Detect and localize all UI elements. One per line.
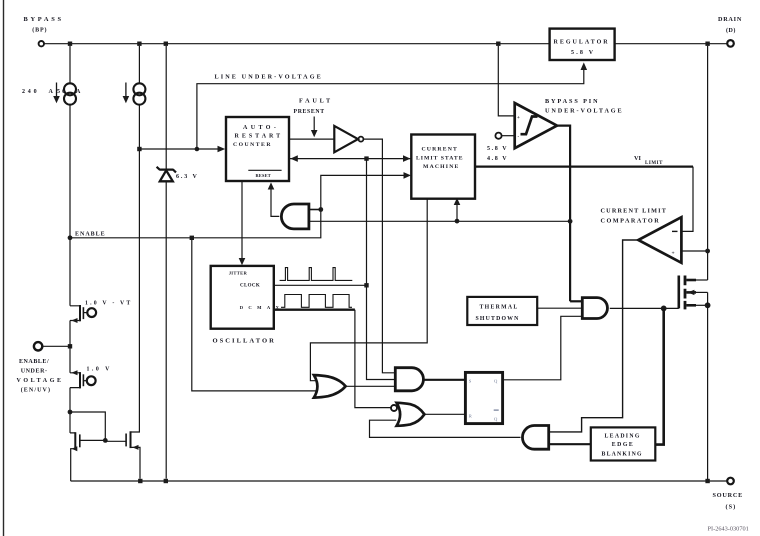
svg-text:A: A xyxy=(49,89,54,95)
latch U9 S-R xyxy=(465,372,502,423)
svg-text:PI-2643-030701: PI-2643-030701 xyxy=(708,526,749,533)
waveform clock pulses xyxy=(280,268,353,281)
waveform dcmax xyxy=(281,295,352,308)
svg-text:DRAIN: DRAIN xyxy=(718,16,742,23)
wire source rail xyxy=(71,479,727,483)
svg-text:(S): (S) xyxy=(726,504,737,511)
pin ENABLE/UNDER-VOLTAGE (EN/UV) xyxy=(17,342,73,393)
svg-text:CURRENT: CURRENT xyxy=(422,147,459,153)
svg-text:+: + xyxy=(672,251,675,257)
svg-text:50: 50 xyxy=(57,89,67,95)
transistor Q5 mirror right xyxy=(105,431,140,479)
svg-text:ENABLE: ENABLE xyxy=(75,232,106,238)
wire G4 output to latch R xyxy=(425,413,466,415)
svg-text:6.3 V: 6.3 V xyxy=(176,174,199,180)
wire comparator-to-gates y221 xyxy=(309,198,570,224)
svg-text:FAULT: FAULT xyxy=(299,98,333,105)
wire VI LIMIT xyxy=(475,155,693,231)
border frame left edge xyxy=(3,0,5,536)
svg-text:S: S xyxy=(469,379,472,384)
wire fault-present net (inverter out to AND1) xyxy=(363,139,395,373)
svg-text:COMPARATOR: COMPARATOR xyxy=(601,217,661,224)
svg-text:THERMAL: THERMAL xyxy=(480,304,519,310)
transistor Q1 power MOSFET xyxy=(679,276,711,482)
wire bypass comp into G6 xyxy=(570,300,582,302)
wire drain vertical xyxy=(707,46,709,280)
svg-text:MACHINE: MACHINE xyxy=(423,164,460,170)
svg-text:COUNTER: COUNTER xyxy=(233,142,272,148)
pin BYPASS (BP) xyxy=(24,16,64,46)
wire dcmax output to OR3 xyxy=(274,310,391,408)
and-gate G3 (clock AND) xyxy=(395,368,423,391)
svg-text:REGULATOR: REGULATOR xyxy=(554,40,610,46)
svg-text:1.0 V: 1.0 V xyxy=(87,367,112,373)
current source I1 240uA/50uA xyxy=(22,83,81,105)
svg-text:RESTART: RESTART xyxy=(235,134,284,140)
svg-text:240: 240 xyxy=(22,89,39,95)
svg-text:4.8 V: 4.8 V xyxy=(487,156,508,162)
svg-text:BYPASS PIN: BYPASS PIN xyxy=(545,98,599,105)
zener VZ 6.3 V xyxy=(157,46,199,479)
wire clock vertical (to oscillator and AND1) xyxy=(364,159,395,380)
wire bypass comparator output down xyxy=(557,126,572,302)
svg-text:CLOCK: CLOCK xyxy=(240,283,260,288)
svg-text:SOURCE: SOURCE xyxy=(713,492,744,499)
svg-text:EDGE: EDGE xyxy=(612,442,634,448)
wire CLSM bottom to OR1 xyxy=(310,199,427,381)
pin DRAIN (D) xyxy=(718,16,742,47)
svg-text:OSCILLATOR: OSCILLATOR xyxy=(213,338,276,345)
and-gate G1 (reset, points left) xyxy=(268,182,321,229)
wire clock net ARC-CLSM double arrow xyxy=(289,155,411,162)
svg-text:UNDER-: UNDER- xyxy=(21,369,48,375)
wire bypass branch x70 upper (rail to T1) xyxy=(69,46,71,306)
leading edge blanking U11 xyxy=(591,427,656,460)
svg-text:CURRENT LIMIT: CURRENT LIMIT xyxy=(601,207,668,214)
svg-text:A: A xyxy=(76,89,81,95)
and-gate G6 (gate drive AND) xyxy=(582,298,607,319)
svg-text:JITTER: JITTER xyxy=(229,271,248,276)
svg-text:(D): (D) xyxy=(726,27,736,34)
transistor Q4 mirror left xyxy=(70,432,105,481)
wire gate node to LEB input xyxy=(655,308,663,444)
wire G6 output to MOSFET gate xyxy=(610,306,679,312)
op-amp U7 current limit comparator xyxy=(601,207,682,262)
svg-text:LIMIT: LIMIT xyxy=(645,161,663,166)
wire thermal shutdown output xyxy=(537,307,582,309)
svg-text:UNDER-VOLTAGE: UNDER-VOLTAGE xyxy=(545,108,624,115)
inverter U5 xyxy=(334,126,363,152)
auto-restart counter U2 xyxy=(226,117,289,181)
wire G3 output to latch S xyxy=(424,379,466,381)
and-gate G5 (points left) xyxy=(522,426,548,450)
wire top rail from BYPASS to DRAIN xyxy=(44,42,727,46)
wire LEB output to G5 xyxy=(549,443,591,445)
wire comparator output to G5 xyxy=(549,240,639,432)
wire EN/UV mirror branch x139 (rail to mirror M2) xyxy=(138,46,140,432)
svg-text:BLANKING: BLANKING xyxy=(602,451,643,457)
svg-text:5.8 V: 5.8 V xyxy=(487,146,508,152)
transistor Q3 sense 1.0 V xyxy=(70,367,112,389)
svg-text:+: + xyxy=(517,116,520,121)
wire mirror gate tie xyxy=(70,412,108,443)
svg-text:BYPASS: BYPASS xyxy=(24,16,64,23)
wire ARC to oscillator xyxy=(239,181,246,265)
svg-text:(EN/UV): (EN/UV) xyxy=(21,387,51,394)
svg-text:SHUTDOWN: SHUTDOWN xyxy=(476,316,520,322)
svg-text:LIMIT STATE: LIMIT STATE xyxy=(416,155,464,161)
thermal shutdown U10 xyxy=(467,297,537,325)
svg-text:LEADING: LEADING xyxy=(605,433,641,439)
svg-text:LINE UNDER-VOLTAGE: LINE UNDER-VOLTAGE xyxy=(215,74,323,81)
svg-text:1.0 V - VT: 1.0 V - VT xyxy=(85,301,132,307)
wire comparator bottom input from drain xyxy=(681,249,710,254)
or-gate G2 (enable OR) xyxy=(314,375,346,398)
node LINE UNDER-VOLTAGE xyxy=(137,62,587,152)
svg-text:VI: VI xyxy=(634,155,641,162)
regulator U3 5.8 V xyxy=(550,29,615,60)
current limit state machine U6 xyxy=(411,135,475,199)
wire latch Q to G6 xyxy=(503,316,583,380)
wire x70 Q3 to mirror xyxy=(68,388,73,433)
label FAULT PRESENT with arrow xyxy=(294,98,333,138)
svg-text:VOLTAGE: VOLTAGE xyxy=(17,378,64,384)
current source I2 xyxy=(123,83,146,105)
svg-text:RESET: RESET xyxy=(256,173,271,178)
pin SOURCE (S) xyxy=(713,478,744,511)
svg-text:5.8 V: 5.8 V xyxy=(571,50,595,56)
svg-text:ENABLE/: ENABLE/ xyxy=(19,359,49,365)
wire enable branch to OR2 xyxy=(192,240,316,391)
wire G5 output to G4 xyxy=(370,420,521,437)
wire x70 between Q2 and Q3 xyxy=(69,321,71,373)
wire clock output xyxy=(274,284,367,286)
svg-text:(BP): (BP) xyxy=(32,27,47,34)
transistor Q2 sense 1.0 V - VT xyxy=(70,301,132,324)
svg-text:PRESENT: PRESENT xyxy=(294,109,325,115)
op-amp U4 bypass pin under-voltage comparator xyxy=(487,46,624,162)
oscillator U8 xyxy=(211,266,285,345)
wire ARC to inverter xyxy=(289,138,334,140)
wire G2 output to G3 xyxy=(346,385,395,387)
wire enable net to CLSM and reset gate xyxy=(68,172,411,240)
or-gate G4 (dcmax OR with bubble) xyxy=(391,403,424,426)
svg-text:AUTO-: AUTO- xyxy=(243,125,279,131)
